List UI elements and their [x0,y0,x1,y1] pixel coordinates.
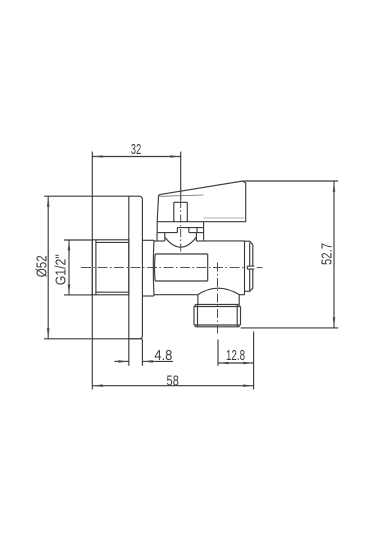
svg-text:Ø52: Ø52 [33,255,50,277]
wire: dimension 32 extension line right / stem axis [180,152,182,201]
node: bottom outlet vertical center line [217,263,219,335]
wire: dim 52.7 vertical line [333,181,335,327]
component: dome right shoulder block [195,233,197,241]
svg-text:12.8: 12.8 [226,347,245,364]
component: bonnet packing band [156,222,158,233]
wire: dimension line 12.8 [218,362,254,364]
component: bottom outlet neck [197,295,199,305]
component: wall flange plate [129,196,143,339]
component: inlet male thread G1/2 [92,240,129,295]
wire: G1/2 top extension [64,239,92,241]
wire: dim 4.8 extension line right [141,339,143,366]
wire: dim G1/2 vertical line [68,240,70,295]
wire: dimension line 4.8 with outside arrows [115,360,129,362]
wire: handle inner edge line [158,195,203,196]
wire: 52.7 top extension [243,180,338,182]
component: bottom outlet shoulder arc [198,288,239,294]
component: bottom outlet male thread [194,305,241,327]
component: body inner bore rectangle [155,253,208,255]
wire: G1/2 bottom extension [64,294,92,296]
component: dome left shoulder block [156,233,158,241]
svg-text:52.7: 52.7 [318,243,335,265]
component: right cap screw slot [247,265,254,267]
node: horizontal center line [81,267,246,269]
wire: Ø52 top extension [44,195,129,197]
component: connection nut between plate and body [142,239,154,241]
component: right outlet cap [245,241,253,266]
wire: handle underside interior line [204,217,245,219]
svg-text:32: 32 [131,141,142,158]
wire: dimension line 32 [92,156,180,158]
svg-text:58: 58 [167,372,179,389]
wire: dim 12.8 extension line left [217,340,219,366]
wire: dim 4.8 extension line left [128,339,130,366]
component: handle lever [157,181,246,222]
component: ball dome arc [165,237,197,247]
component: valve stem [173,202,175,222]
wire: dimension line 58 [92,385,253,387]
svg-text:4.8: 4.8 [154,347,172,364]
wire: dim 12.8 extension line right (shared with 58) [253,332,255,390]
wire: 52.7 bottom extension [241,327,339,329]
wire: dimension 32 extension line left (shared with 58) [91,152,93,390]
wire: Ø52 bottom extension [44,338,142,340]
wire: dim Ø52 vertical line [47,196,49,339]
component: valve body [153,240,164,242]
svg-text:G1/2": G1/2" [52,254,69,285]
node: stem vertical center line [180,200,182,255]
node: horizontal center line right tail [257,267,263,269]
